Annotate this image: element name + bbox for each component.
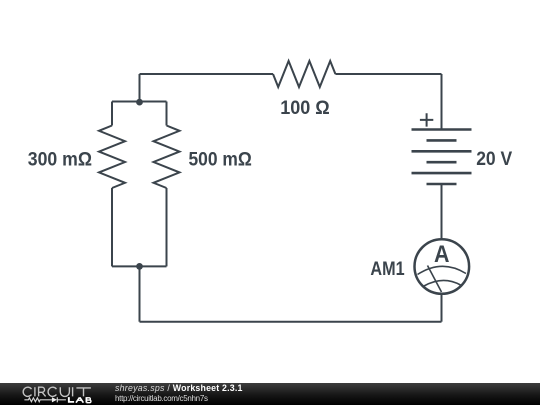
wire top rail left segment xyxy=(140,73,274,75)
CircuitLab logo word CIRCUIT xyxy=(23,387,91,396)
CircuitLab logo word LAB letter L xyxy=(68,397,74,403)
svg-text:500 mΩ: 500 mΩ xyxy=(189,148,252,170)
CircuitLab logo word LAB letter B xyxy=(86,397,91,403)
resistor R3 500 mOhm zigzag xyxy=(154,126,180,189)
wire right vertical to battery plus terminal xyxy=(441,74,443,130)
resistor R1 100 Ohm zigzag xyxy=(273,61,335,87)
CircuitLab logo diode triangle xyxy=(52,397,57,402)
wire bottom rail xyxy=(140,321,442,323)
battery V1 plus sign xyxy=(420,113,433,126)
wire right branch upper lead xyxy=(166,102,168,126)
svg-text:100 Ω: 100 Ω xyxy=(280,97,330,119)
resistor R2 300 mOhm zigzag xyxy=(99,126,125,189)
wire bottom bar of parallel branch xyxy=(112,265,167,267)
svg-text:300 mΩ: 300 mΩ xyxy=(28,149,92,171)
CircuitLab logo resistor squiggle wire xyxy=(24,397,66,402)
footer bar xyxy=(0,383,540,405)
ammeter AM1 letter A xyxy=(434,241,450,268)
battery V1 plates xyxy=(412,130,472,185)
footer title text line 1 xyxy=(115,383,243,393)
node A junction dot xyxy=(136,99,143,106)
label 300 mOhm xyxy=(28,149,92,171)
svg-text:AM1: AM1 xyxy=(370,258,404,280)
ammeter AM1 gauge upper arc xyxy=(418,266,467,274)
footer url text line 2 xyxy=(115,394,208,403)
wire left branch lower lead xyxy=(111,188,113,266)
svg-text:20 V: 20 V xyxy=(476,148,512,170)
label 500 mOhm xyxy=(189,148,252,170)
ammeter AM1 circle xyxy=(415,239,470,294)
label AM1 xyxy=(370,258,404,280)
wire ammeter bottom to bottom rail xyxy=(441,294,443,322)
wire top bar of parallel branch xyxy=(112,101,167,103)
wire top rail right segment xyxy=(335,73,441,75)
ammeter AM1 needle xyxy=(428,266,442,293)
ammeter AM1 gauge lower arc xyxy=(424,280,461,286)
wire battery minus to ammeter top xyxy=(441,184,443,240)
wire bottom-left vertical up to node B xyxy=(139,266,141,321)
label 100 Ohm xyxy=(280,97,330,119)
label 20 V xyxy=(476,148,512,170)
wire top-left vertical stub from node A to top rail xyxy=(139,74,141,102)
svg-text:A: A xyxy=(434,241,450,268)
wire left branch upper lead xyxy=(111,102,113,126)
CircuitLab logo word LAB letter A xyxy=(76,397,83,402)
node B junction dot xyxy=(136,263,143,270)
wire right branch lower lead xyxy=(166,188,168,266)
